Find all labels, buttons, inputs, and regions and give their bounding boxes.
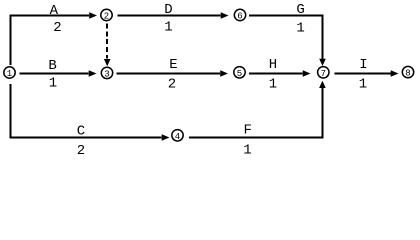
arrowhead F into node 7 bottom <box>319 81 326 88</box>
svg-text:I: I <box>359 57 367 73</box>
wire activity B shaft node1 to node3 <box>20 73 89 75</box>
node 7 <box>318 67 329 79</box>
svg-text:F: F <box>243 123 251 139</box>
svg-text:1: 1 <box>269 77 277 93</box>
svg-text:H: H <box>269 57 277 73</box>
node 2 <box>101 9 112 21</box>
node 1 <box>4 67 15 79</box>
wire activity E shaft node3 to node5 <box>117 73 221 75</box>
arrowhead C into node 4 <box>162 134 170 141</box>
wire activity G shaft node6 right then down to node7 <box>249 16 323 60</box>
node 4 <box>172 130 183 142</box>
svg-text:2: 2 <box>53 20 61 36</box>
arrowhead B into node 3 <box>89 70 97 77</box>
arrowhead E into node 5 <box>220 70 228 77</box>
svg-text:1: 1 <box>49 75 57 91</box>
svg-text:1: 1 <box>164 20 172 36</box>
svg-text:7: 7 <box>321 69 326 79</box>
svg-text:E: E <box>169 57 177 73</box>
arrowhead dummy into node 3 <box>104 59 111 66</box>
svg-text:1: 1 <box>243 143 251 157</box>
svg-text:A: A <box>50 3 59 19</box>
arrowhead I into node 8 <box>391 70 399 77</box>
svg-text:8: 8 <box>405 69 410 79</box>
wire activity H shaft node5 to node7 <box>249 73 303 75</box>
svg-text:B: B <box>48 58 56 74</box>
arrowhead A into node 2 <box>89 12 97 19</box>
svg-text:2: 2 <box>104 12 109 22</box>
wire activity D shaft node2 to node6 <box>118 15 221 17</box>
arrowhead G into node 7 top <box>319 59 326 66</box>
svg-text:2: 2 <box>77 143 85 157</box>
wire from node 1 down and right (activity C shaft) <box>11 84 162 138</box>
node 6 <box>234 9 245 21</box>
svg-text:5: 5 <box>237 69 242 79</box>
dashed dummy activity wire node2 to node3 <box>106 24 108 59</box>
svg-text:G: G <box>296 2 304 18</box>
svg-text:1: 1 <box>7 69 12 79</box>
wire from node 1 up and right (activity A shaft) <box>11 16 90 66</box>
node 3 <box>101 67 112 79</box>
svg-text:1: 1 <box>359 77 367 93</box>
svg-text:C: C <box>77 124 85 140</box>
svg-text:2: 2 <box>168 77 176 93</box>
node 8 <box>402 66 413 78</box>
arrowhead H into node 7 <box>303 70 311 77</box>
svg-text:4: 4 <box>175 132 180 142</box>
wire activity I shaft node7 to node8 <box>335 73 394 75</box>
arrowhead D into node 6 <box>221 12 229 19</box>
svg-text:3: 3 <box>104 69 109 79</box>
wire activity F shaft node4 right then up to node7 <box>189 88 322 138</box>
svg-text:6: 6 <box>237 12 242 22</box>
node 5 <box>234 67 245 79</box>
svg-text:D: D <box>164 2 172 18</box>
svg-text:1: 1 <box>296 20 304 36</box>
